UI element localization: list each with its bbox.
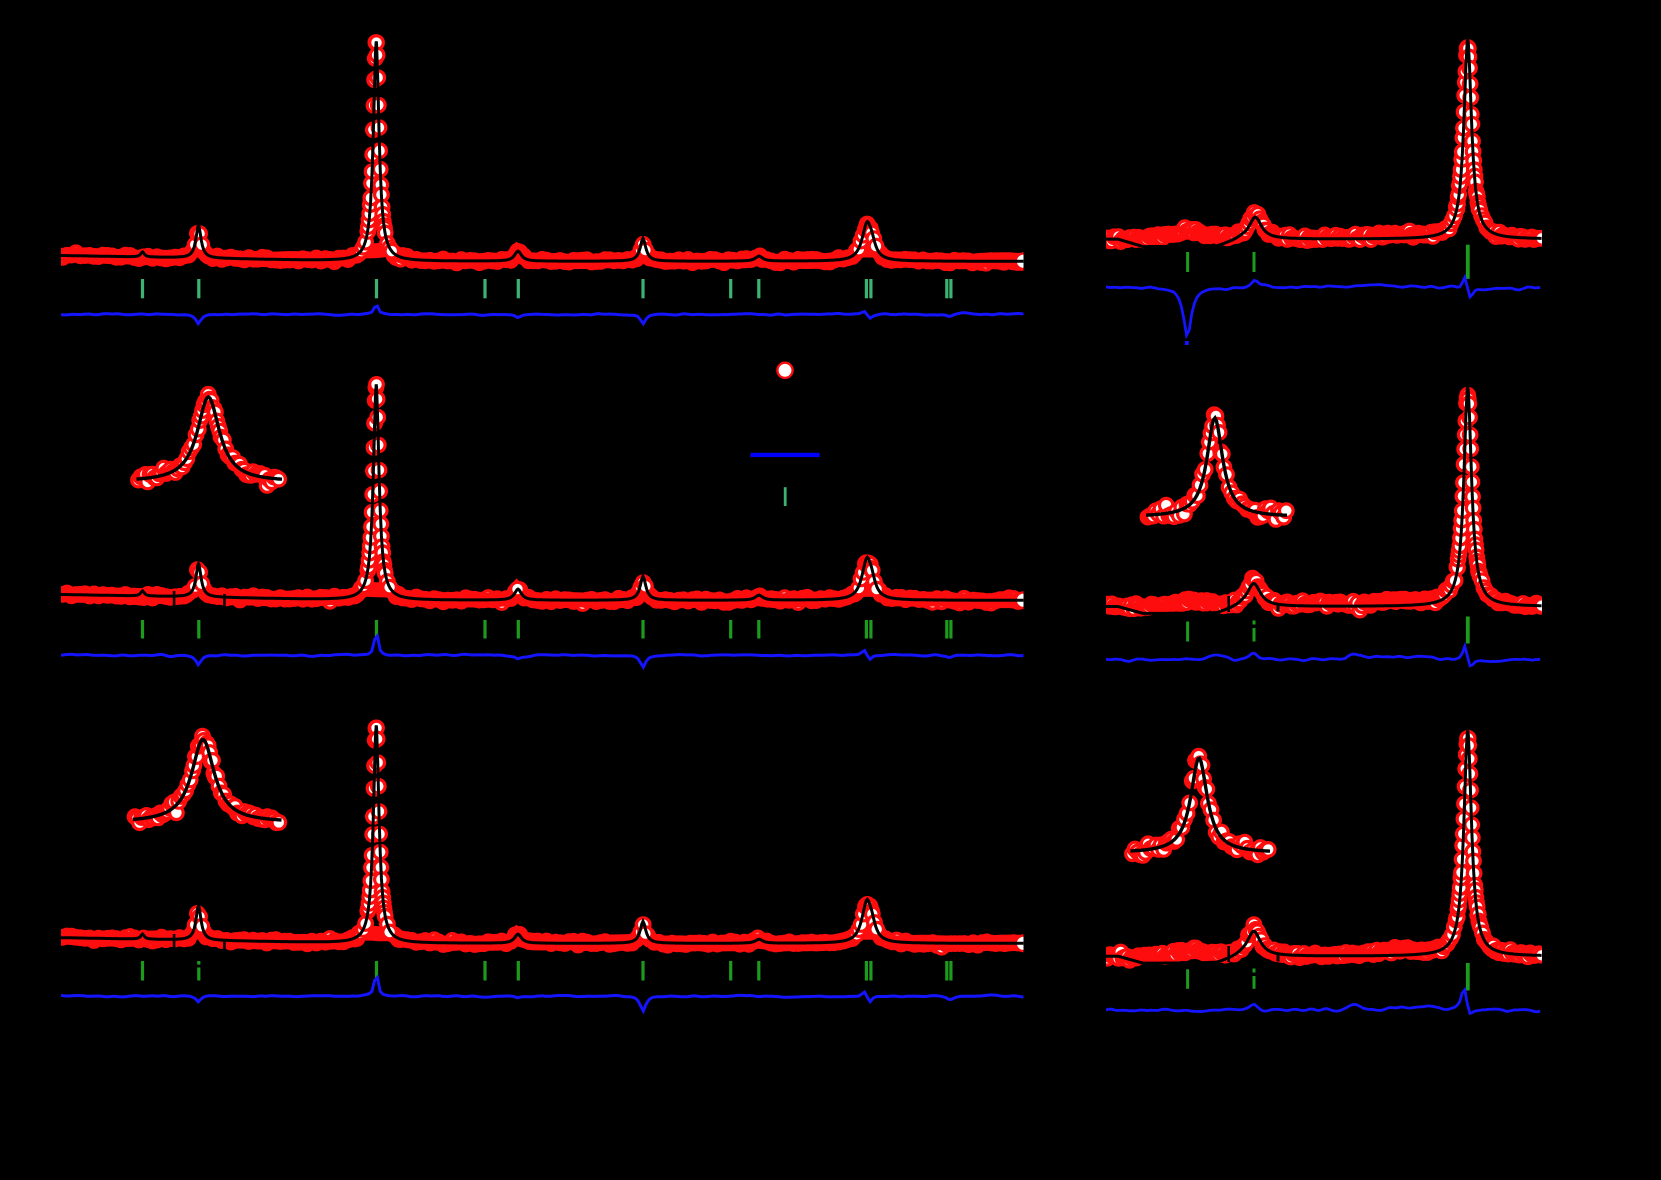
L2 observed baseline markers (red circles) (56, 583, 1025, 611)
L1 difference curve (blue) (61, 306, 1024, 324)
R2 Bragg position tick marks (green) (1186, 617, 1470, 644)
L3 difference curve (blue) (61, 978, 1024, 1012)
L2 calculated fit line (black) (61, 384, 1023, 600)
legend: difference line sample (blue) (751, 453, 820, 457)
R2 difference curve (blue) (1106, 646, 1540, 666)
L1 observed peak markers (red circles) (188, 36, 1031, 269)
L3 observed peak markers (red circles) (188, 721, 1031, 951)
R3 observed data markers (red circles) (1101, 732, 1549, 968)
R2 inset observed markers (red circles) (1141, 408, 1293, 526)
R3 inset source region marker lines (black) (1227, 946, 1279, 962)
R3 Bragg position tick marks (green) (1186, 963, 1470, 991)
L2 inset observed markers (red circles) (132, 388, 286, 493)
R2 observed data markers (red circles) (1101, 388, 1549, 616)
L3 inset source region marker lines (black) (173, 934, 226, 958)
L2 inset calculated line (black) (137, 397, 283, 479)
L3 observed data band (red) (61, 928, 1021, 944)
legend: observed marker (red circle) (777, 363, 792, 378)
L1 observed baseline markers (red circles) (56, 244, 1029, 270)
R2 inset calculated line (black) (1146, 418, 1287, 515)
legend: Bragg tick sample (green) (784, 487, 787, 506)
L1 calculated fit line (black) (61, 41, 1023, 261)
L3 observed baseline markers (red circles) (56, 926, 1025, 955)
L1 observed data band (red) (61, 247, 1021, 262)
R3 difference curve (blue) (1106, 990, 1540, 1014)
L3 Bragg position tick marks (green) (141, 961, 953, 981)
L3 inset calculated line (black) (133, 740, 282, 820)
L2 inset source region marker lines (black) (173, 591, 226, 611)
R3 calculated fit line (black) (1106, 730, 1542, 963)
L2 Bragg position tick marks (green) (141, 620, 953, 639)
R1 Bragg position tick marks (green) (1186, 245, 1470, 279)
R1 difference curve (blue) (1106, 278, 1540, 336)
L2 observed data band (red) (61, 585, 1021, 601)
R2 calculated fit line (black) (1106, 387, 1542, 614)
R3 inset observed markers (red circles) (1126, 749, 1275, 862)
R3 inset calculated line (black) (1131, 758, 1271, 851)
L2 observed peak markers (red circles) (188, 378, 1031, 608)
L3 inset observed markers (red circles) (128, 729, 285, 829)
L2 difference curve (blue) (61, 636, 1024, 667)
R1 calculated fit line (black) (1106, 39, 1542, 246)
R1 difference curve stray point (blue) (1185, 341, 1189, 345)
R1 observed data markers (red circles) (1101, 41, 1549, 249)
L1 Bragg position tick marks (green) (141, 279, 953, 298)
L3 calculated fit line (black) (61, 725, 1023, 943)
R2 inset source region marker lines (black) (1227, 596, 1279, 612)
